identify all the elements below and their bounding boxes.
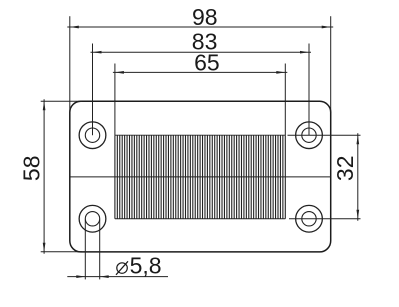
svg-text:58: 58: [19, 156, 45, 182]
plate outline: [70, 101, 331, 252]
hole top-left: [79, 122, 106, 149]
hole top-right: [296, 122, 323, 149]
hatch fin area: [115, 135, 285, 219]
svg-text:32: 32: [332, 156, 358, 182]
svg-text:5,8: 5,8: [130, 253, 162, 279]
horizontal centerline: [70, 176, 331, 178]
hatch stripes: [115, 135, 285, 219]
dimension 65: [113, 64, 287, 136]
hole bottom-left: [79, 205, 106, 232]
dimension 5,8: [67, 220, 168, 280]
dimension 58: [41, 99, 82, 254]
svg-text:98: 98: [192, 4, 218, 30]
dimension 32: [288, 133, 361, 221]
dimension 83: [91, 44, 312, 136]
svg-text:65: 65: [194, 49, 220, 75]
dimension 98: [67, 16, 333, 113]
diameter symbol: [116, 261, 128, 275]
hole bottom-right: [296, 205, 323, 232]
